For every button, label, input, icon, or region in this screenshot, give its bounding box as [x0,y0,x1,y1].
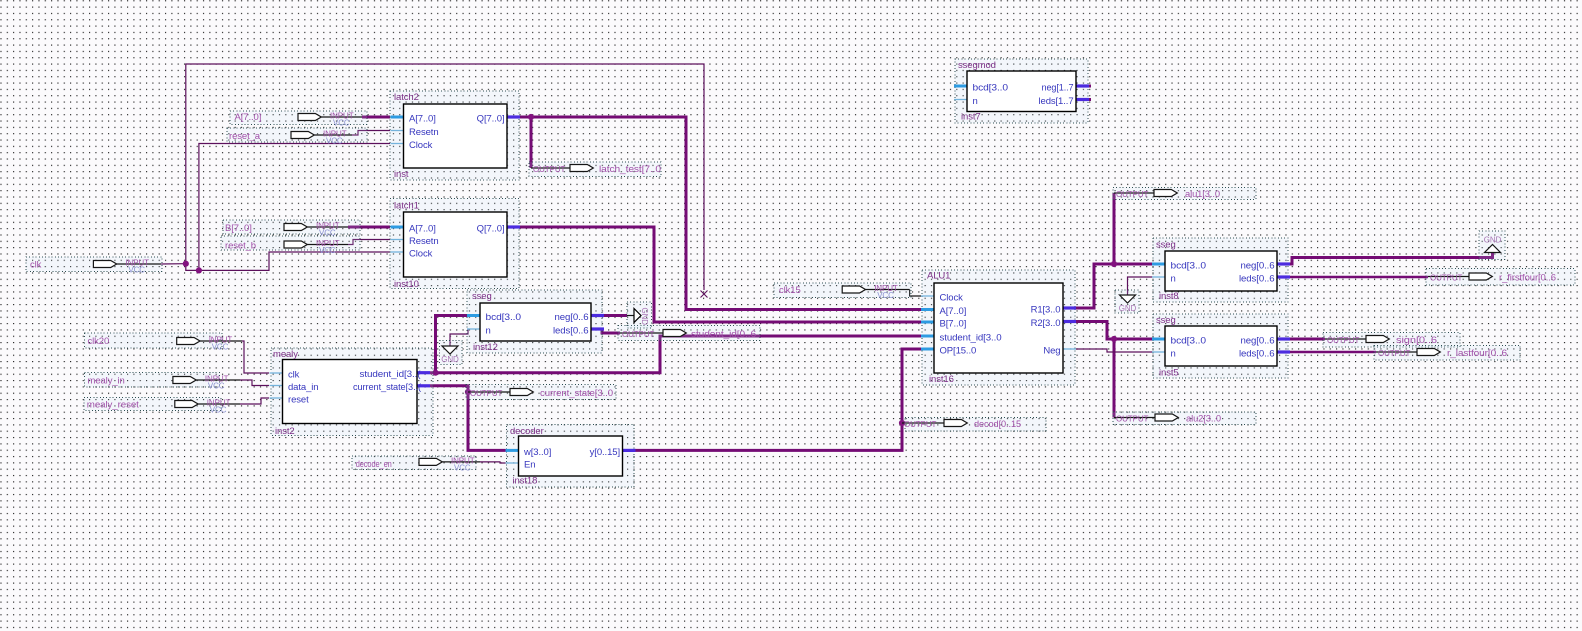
svg-text:R2[3..0: R2[3..0 [1031,318,1061,329]
block ALU1 (inst16) [921,270,1076,385]
wire bus current_state from mealy [430,386,468,392]
svg-text:Resetn: Resetn [409,236,439,247]
junction latch2 Q / latch_test [528,114,534,120]
output pin latch_test[7..0] [529,162,661,177]
svg-text:B[7..0]: B[7..0] [225,223,252,234]
wire bus sseg inst8 leds to r_firstfour output [1288,276,1428,279]
svg-text:Clock: Clock [409,248,433,259]
svg-text:y[0..15]: y[0..15] [590,447,620,458]
ground GND at sseg inst8 n [1115,290,1139,313]
input pin decode_en [352,456,480,472]
output pin current_state[3..0] [466,385,616,400]
junction student_id bus / inst12 bcd [432,370,438,376]
block latch2 (inst) [390,91,520,180]
svg-text:VCC: VCC [319,246,336,255]
ground GND at sseg inst12 neg [627,302,652,328]
wire bus sseg inst5 leds to r_lastfour output [1288,351,1376,354]
svg-text:B[7..0]: B[7..0] [940,318,967,329]
input pin B[7..0] [223,220,360,238]
wire bus sseg inst12 neg to ground [602,314,627,317]
svg-text:sseg: sseg [472,291,492,302]
svg-text:n: n [1171,348,1176,359]
svg-text:sseg: sseg [1156,315,1176,326]
svg-text:reset: reset [288,394,309,405]
svg-text:latch1: latch1 [394,201,419,212]
svg-text:inst7: inst7 [961,112,981,123]
svg-text:OUTPUT: OUTPUT [470,389,503,398]
wire bus student_id from mealy to ALU [430,336,921,373]
input pin reset_a [227,128,367,146]
svg-text:data_in: data_in [288,382,318,393]
svg-text:Q[7..0]: Q[7..0] [477,113,505,124]
wire bus sseg inst8 neg to ground top right [1288,253,1493,265]
svg-text:latch_test[7..0: latch_test[7..0 [599,164,661,175]
output pin decod[0..15] [902,418,1046,432]
wire net sseg inst8 n to ground [1128,277,1153,295]
wire bus latch1 Q to ALU B [520,227,921,322]
svg-text:inst8: inst8 [1159,291,1179,302]
wire bus ssegmod leds dangling stub [1086,98,1091,101]
junction R2 bus / alu2 output [1111,336,1117,342]
wire bus B[7..0] pin to latch1 [348,226,390,229]
block mealy (inst2) [270,348,434,437]
svg-text:clk15: clk15 [779,285,801,296]
svg-text:neg[0..6: neg[0..6 [555,312,589,323]
dangling wire end marker x [701,291,708,298]
svg-text:A[7..0]: A[7..0] [940,306,967,317]
wire bus ALU R1 to sseg inst8 bcd and alu1 output [1076,264,1153,308]
svg-text:student_id[3..(: student_id[3..( [360,369,422,380]
input pin clk20 [85,333,243,352]
svg-text:decode_en: decode_en [356,459,392,470]
svg-text:VCC: VCC [454,463,471,472]
junction clk net at input [183,261,189,267]
svg-text:current_state[3..0: current_state[3..0 [540,388,613,399]
svg-text:mealy_reset: mealy_reset [87,400,139,411]
wire bus A[7..0] pin to latch2 [362,116,390,119]
svg-text:OUTPUT: OUTPUT [904,420,937,429]
svg-text:bcd[3..0: bcd[3..0 [973,82,1009,93]
svg-text:clk: clk [30,260,42,271]
wire bus decoder y to ALU OP [635,349,921,450]
output pin alu2[3..0] [1113,412,1256,425]
svg-text:clk20: clk20 [88,336,110,347]
wire clk net: jog to second junction [186,264,199,271]
svg-text:inst: inst [394,169,409,180]
svg-text:student_id[0..6: student_id[0..6 [691,329,756,340]
input pin clk15 [774,283,911,300]
wire bus latch2 Q to ALU A and latch_test output [520,117,921,310]
wire clk net: to latch2 Clock [199,144,390,271]
svg-text:decod[0..15: decod[0..15 [974,419,1021,430]
svg-text:Resetn: Resetn [409,127,439,138]
svg-text:student_id[3..0: student_id[3..0 [940,332,1002,343]
svg-text:GND: GND [640,308,649,326]
svg-text:r_lastfour[0..6: r_lastfour[0..6 [1447,348,1507,359]
output pin r_lastfour[0..6] [1374,346,1520,361]
wire net mealy_in to mealy data_in [240,380,269,386]
svg-text:OUTPUT: OUTPUT [1327,336,1360,345]
wire net clk15 to ALU Clock [910,290,921,297]
block sseg (inst8) [1152,238,1290,302]
output pin sign[0..6] [1323,333,1460,348]
junction current_state bus [465,389,471,395]
svg-text:bcd[3..0: bcd[3..0 [486,312,522,323]
svg-text:OP[15..0: OP[15..0 [940,345,977,356]
wire net clk20 to mealy clk [242,341,269,373]
svg-text:clk: clk [288,369,300,380]
svg-text:OUTPUT: OUTPUT [1378,349,1411,358]
junction clk net split [196,267,202,273]
svg-text:GND: GND [1484,236,1502,245]
svg-text:bcd[3..0: bcd[3..0 [1171,260,1207,271]
svg-text:R1[3..0: R1[3..0 [1031,304,1061,315]
svg-text:A[7..0]: A[7..0] [409,223,436,234]
svg-text:reset_a: reset_a [229,131,261,142]
wire net ALU Neg to sseg inst5 n [1076,349,1153,352]
svg-text:ALU1: ALU1 [927,271,950,282]
input pin A[7..0] [230,111,367,128]
svg-text:leds[0..6: leds[0..6 [1239,273,1275,284]
junction OP bus / decod output [899,420,905,426]
svg-text:sseg: sseg [1156,240,1176,251]
svg-text:Clock: Clock [409,140,433,151]
output pin alu1[3..0] [1113,188,1256,201]
wire clk net: long loop up over to dangling x [186,64,704,290]
input pin mealy_reset [84,398,240,415]
svg-text:leds[1..7: leds[1..7 [1039,96,1074,107]
svg-text:n: n [486,325,491,336]
svg-text:bcd[3..0: bcd[3..0 [1171,335,1207,346]
svg-text:alu2[3..0: alu2[3..0 [1186,414,1221,425]
wire net reset_b to latch1 Resetn [348,240,390,245]
svg-text:OUTPUT: OUTPUT [1116,190,1149,199]
svg-text:OUTPUT: OUTPUT [533,165,566,174]
wire clk net: pin to junction [161,263,186,265]
input pin reset_b [221,236,360,255]
wire bus sseg inst12 leds to student_id output [602,329,620,333]
junction R1 bus / alu1 output [1111,261,1117,267]
svg-text:neg[0..6: neg[0..6 [1241,260,1275,271]
block decoder (inst18) [506,425,636,488]
output pin r_firstfour[0..6] [1426,269,1575,286]
block sseg (inst12) [467,290,604,353]
svg-text:GND: GND [441,355,459,364]
svg-text:n: n [973,96,978,107]
svg-text:inst12: inst12 [473,342,498,353]
ground GND at sseg inst12 n [440,341,463,365]
svg-text:mealy_in: mealy_in [88,376,125,387]
svg-text:A[7..0]: A[7..0] [409,113,436,124]
wire bus ssegmod neg dangling stub [1086,85,1091,88]
svg-text:reset_b: reset_b [225,241,256,252]
svg-text:VCC: VCC [210,406,227,415]
svg-text:inst16: inst16 [929,374,954,385]
svg-text:alu1[3..0: alu1[3..0 [1185,189,1220,200]
svg-text:n: n [1171,273,1176,284]
wire net reset_a to latch2 Resetn [352,131,390,136]
wire bus current_state branch down to decoder w [468,392,506,450]
svg-text:Q[7..0]: Q[7..0] [477,223,505,234]
wire net sseg inst12 n to ground [450,329,468,347]
wire clk net: to latch1 Clock [199,252,390,270]
block sseg (inst5) [1152,314,1290,379]
svg-text:GND: GND [1119,304,1137,313]
svg-text:OUTPUT: OUTPUT [1430,274,1463,283]
svg-text:r_firstfour[0..6: r_firstfour[0..6 [1499,273,1556,284]
svg-text:current_state[3..(: current_state[3..( [353,382,422,393]
svg-text:VCC: VCC [208,382,225,391]
ground GND at sseg inst8 neg (top right) [1479,231,1505,260]
svg-text:VCC: VCC [326,137,343,146]
svg-text:Clock: Clock [940,292,964,303]
svg-text:A[7..0]: A[7..0] [235,112,262,123]
svg-text:VCC: VCC [333,119,350,128]
svg-text:inst2: inst2 [275,426,295,437]
svg-text:VCC: VCC [212,343,229,352]
block latch1 (inst10) [390,199,520,291]
svg-text:inst10: inst10 [394,279,419,290]
wire bus student_id branch to sseg inst12 bcd [436,316,468,373]
wire bus sseg inst5 neg to sign output [1288,338,1325,341]
block ssegmod (inst7) [954,59,1089,123]
svg-text:decoder: decoder [510,426,544,437]
svg-text:leds[0..6: leds[0..6 [553,325,589,336]
svg-text:neg[0..6: neg[0..6 [1241,335,1275,346]
svg-text:ssegmod: ssegmod [958,60,996,71]
svg-text:w[3..0]: w[3..0] [523,447,551,458]
wire net decode_en to decoder En [480,462,506,463]
svg-text:latch2: latch2 [394,92,419,103]
svg-text:mealy: mealy [273,349,298,360]
svg-text:sign[0..6: sign[0..6 [1396,335,1437,346]
svg-text:VCC: VCC [128,266,145,275]
wire bus ALU R2 to sseg inst5 bcd and alu2 output [1076,322,1153,340]
svg-text:En: En [524,459,535,470]
svg-text:VCC: VCC [877,291,894,300]
svg-text:Neg: Neg [1043,345,1060,356]
svg-text:leds[0..6: leds[0..6 [1239,348,1275,359]
input pin clk [26,257,162,275]
svg-text:neg[1..7: neg[1..7 [1042,82,1074,93]
wire net mealy_reset to mealy reset [240,398,269,404]
svg-text:OUTPUT: OUTPUT [1116,415,1149,424]
svg-text:inst5: inst5 [1159,368,1179,379]
svg-text:inst18: inst18 [513,476,538,487]
input pin mealy_in [85,373,241,391]
svg-text:OUTPUT: OUTPUT [622,330,655,339]
output pin student_id[0..6] [618,326,760,341]
